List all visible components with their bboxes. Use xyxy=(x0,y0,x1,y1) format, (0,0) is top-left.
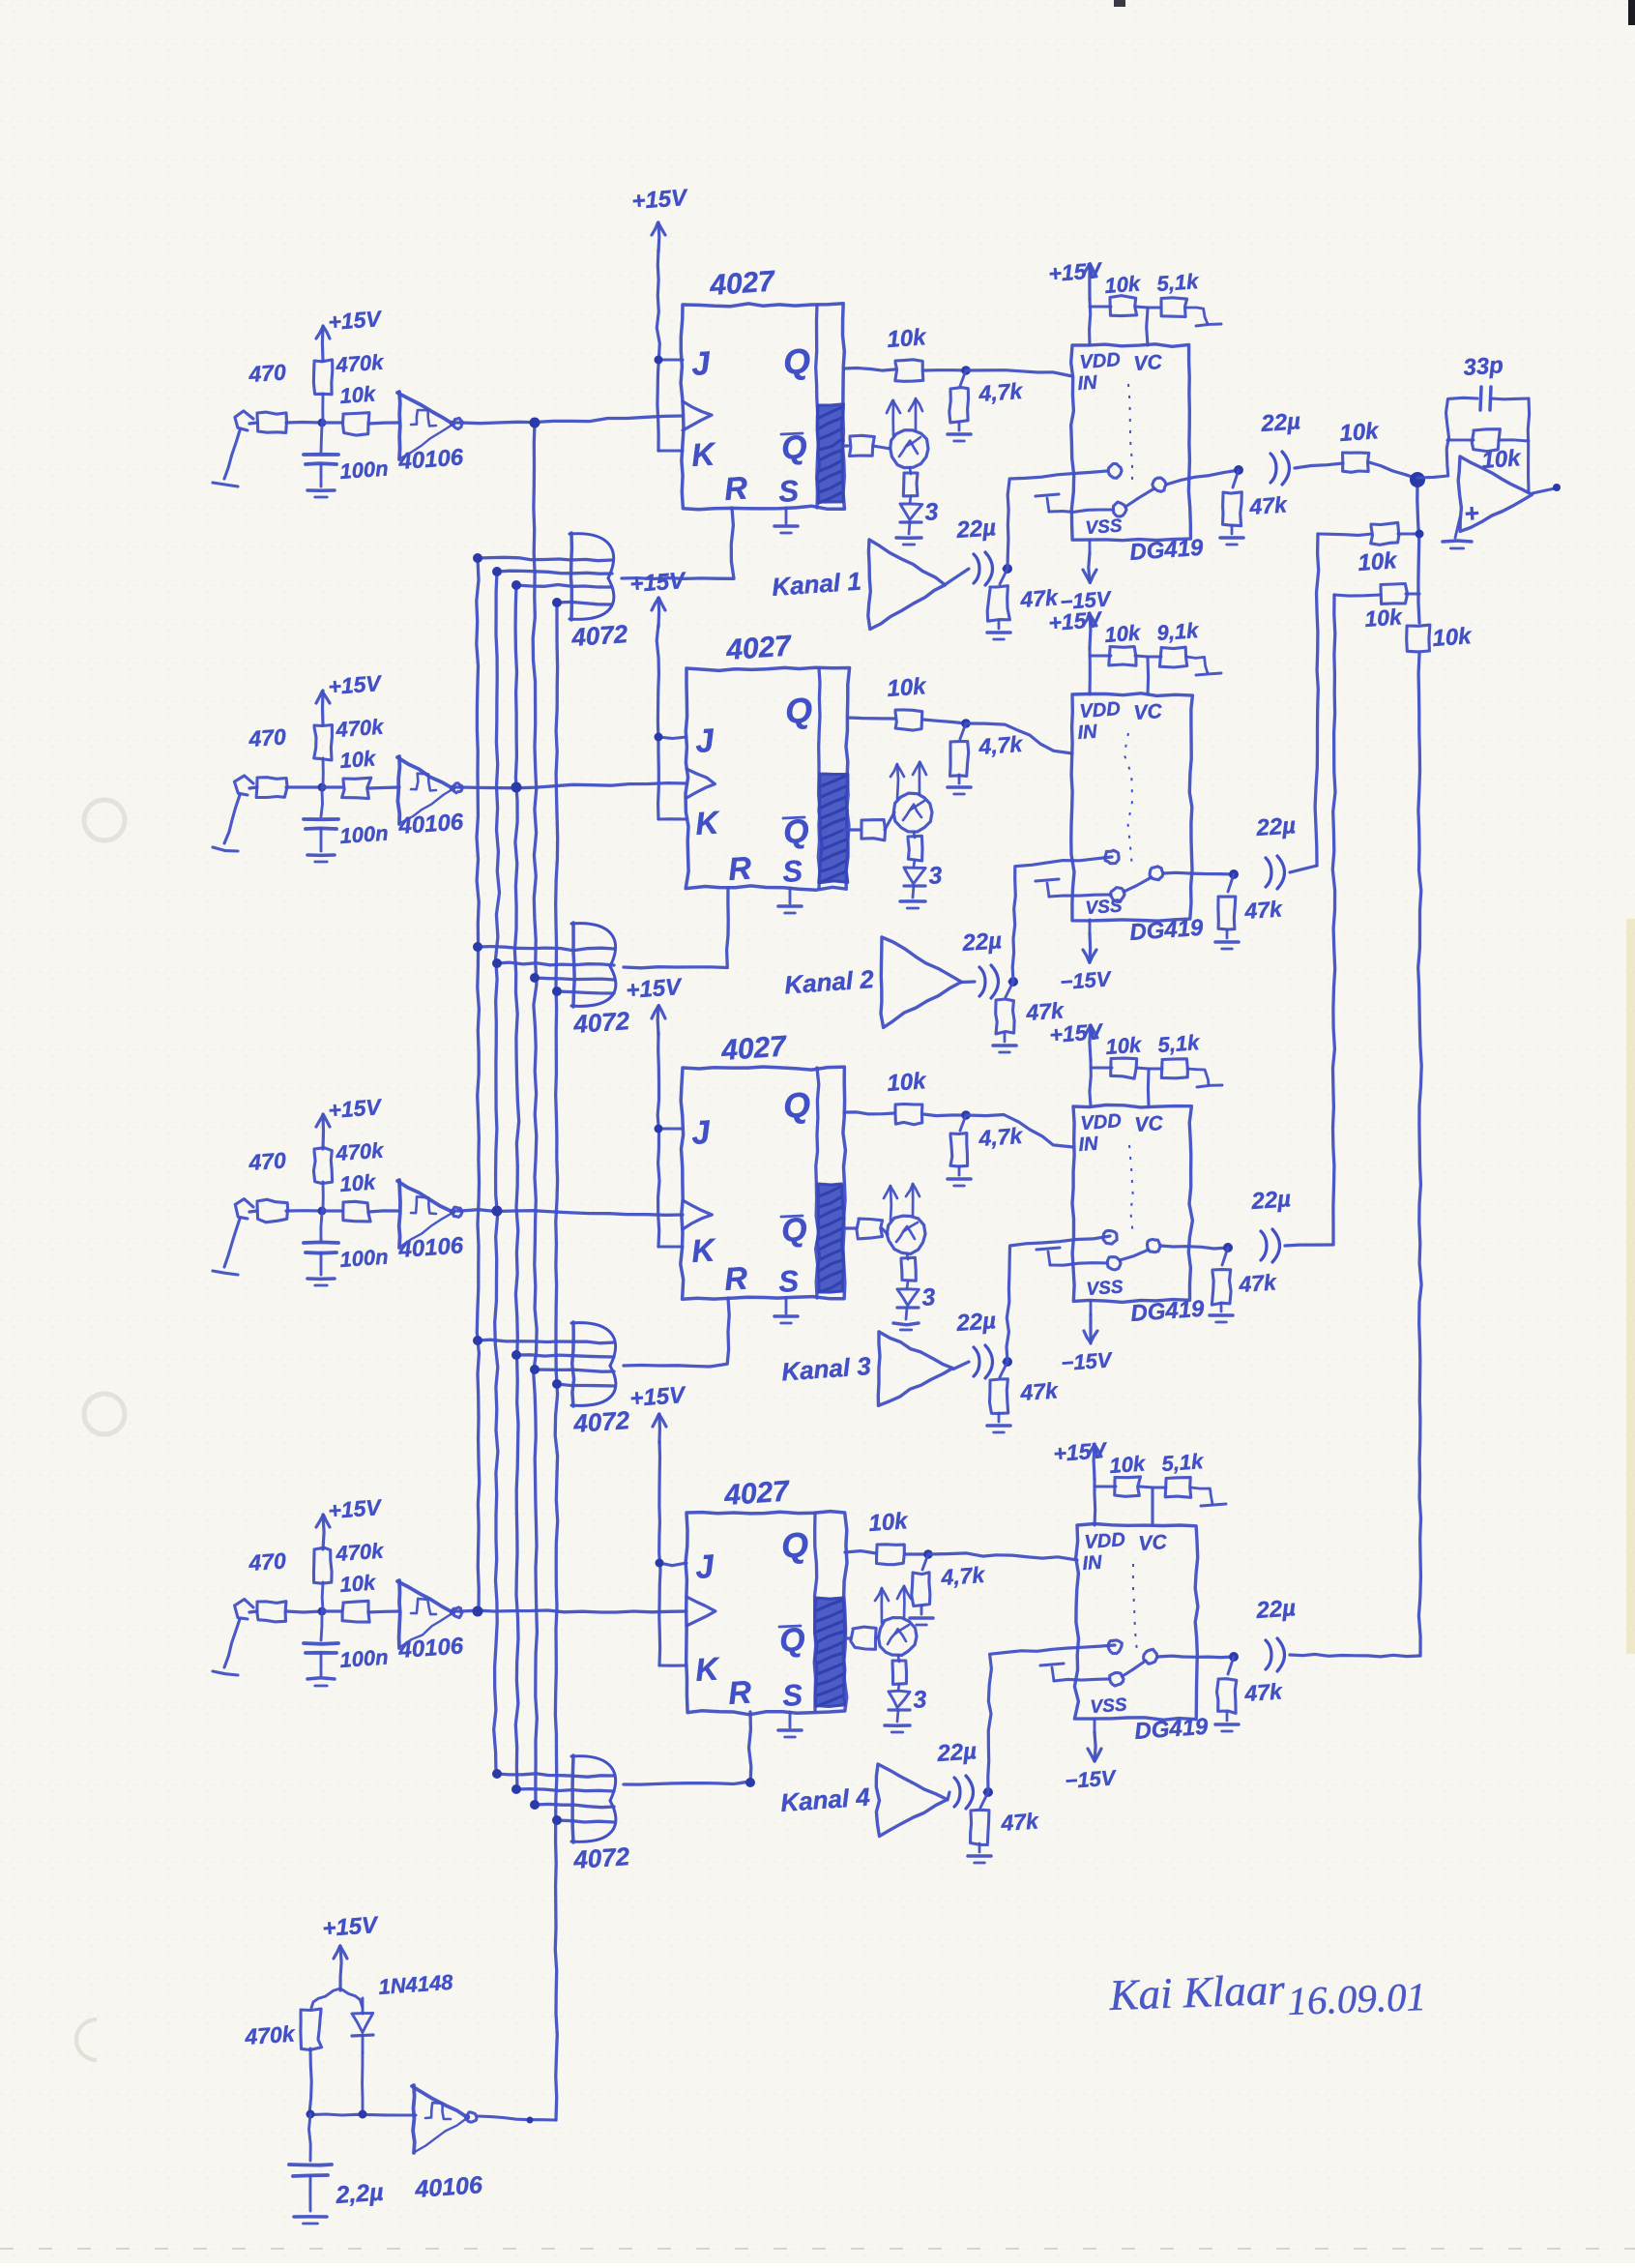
svg-text:470k: 470k xyxy=(335,1539,386,1567)
wire bus line net-lfo xyxy=(555,603,558,2120)
wire ch2 clock line xyxy=(460,783,686,788)
wire xyxy=(368,787,399,788)
wire S2 to ground xyxy=(1049,510,1113,512)
scribble bar 4027 #3 xyxy=(817,1184,844,1292)
schmitt inverter 40106 ch4 xyxy=(397,1580,465,1664)
wire to mix ch1 xyxy=(1295,463,1343,468)
wire xyxy=(1491,397,1529,400)
svg-text:22µ: 22µ xyxy=(1250,1186,1292,1215)
wire xyxy=(1004,1360,1007,1363)
wire xyxy=(286,1611,322,1612)
ground xyxy=(993,1033,1016,1052)
pin S 4027#1 xyxy=(777,474,800,509)
led ch1 xyxy=(900,496,939,526)
node xyxy=(1234,465,1243,475)
resistor 470 ch1 xyxy=(248,359,287,432)
svg-text:−15V: −15V xyxy=(1060,966,1114,994)
wire input to resistor xyxy=(249,1611,257,1612)
node lfo xyxy=(307,2110,367,2119)
wire xyxy=(1004,567,1007,570)
resistor ch4 emitter xyxy=(892,1656,907,1684)
node tap xyxy=(473,942,482,952)
wire xyxy=(923,1114,966,1116)
capacitor 22u out ch2 xyxy=(1255,812,1297,889)
svg-text:4072: 4072 xyxy=(571,1841,630,1874)
svg-text:Q: Q xyxy=(780,1524,810,1566)
wire xyxy=(322,421,342,424)
wire 4072#1 input 3 xyxy=(516,585,612,588)
pin label VC xyxy=(1138,1531,1169,1555)
clock chevron 4027#2 xyxy=(686,769,715,798)
wire xyxy=(953,1362,969,1370)
wire ch3 inverter output xyxy=(453,1209,460,1212)
analog switch DG419 #3 outline xyxy=(1072,1105,1192,1303)
switch lever xyxy=(1125,488,1154,507)
wire 4072#1 input 1 xyxy=(478,557,612,560)
label 4027 #1 xyxy=(708,265,776,302)
pin Qbar 4027#3 xyxy=(780,1211,808,1250)
resistor 470 ch3 xyxy=(248,1147,288,1222)
pin label VC xyxy=(1133,351,1164,375)
svg-text:DG419: DG419 xyxy=(1134,1714,1210,1745)
label DG419 #3 xyxy=(1130,1296,1206,1327)
input jack J4 xyxy=(213,1600,253,1676)
power +15V DG419 #3 xyxy=(1049,1018,1105,1060)
wire 4072#2 input 4 xyxy=(557,991,614,993)
buffer triangle Kanal 3 xyxy=(780,1332,952,1405)
resistor 5,1k top #3 xyxy=(1157,1030,1202,1078)
schmitt inverter 40106 ch3 xyxy=(397,1180,465,1263)
resistor ch1 emitter xyxy=(903,468,918,496)
switch throw S1 xyxy=(1150,867,1163,880)
wire VDD up xyxy=(1090,299,1091,345)
wire ch4 to IN xyxy=(928,1553,1077,1560)
wire xyxy=(322,785,342,788)
wire xyxy=(286,1209,322,1213)
wire mix vertical ch3 xyxy=(1332,595,1335,1245)
power -15V DG419 #2 xyxy=(1060,933,1114,994)
wire xyxy=(882,1228,888,1234)
svg-text:−15V: −15V xyxy=(1061,1347,1115,1375)
resistor 10k ch1 out xyxy=(1339,418,1381,472)
svg-text:4072: 4072 xyxy=(571,1006,630,1039)
svg-text:J: J xyxy=(690,345,713,383)
node tap xyxy=(530,1800,540,1810)
pin Qbar 4027#4 xyxy=(778,1621,806,1660)
svg-text:10k: 10k xyxy=(1358,547,1399,576)
schmitt inverter 40106 ch2 xyxy=(397,756,465,839)
wire xyxy=(876,1636,879,1638)
resistor 10k ch3 input xyxy=(339,1169,378,1222)
ground DG419 #1 xyxy=(1036,494,1059,512)
resistor 47k out ch2 xyxy=(1218,874,1284,929)
wire VSS xyxy=(1094,1719,1096,1732)
label DG419 #4 xyxy=(1134,1714,1210,1745)
svg-text:DG419: DG419 xyxy=(1129,535,1205,566)
wire +15V to J/K xyxy=(655,625,687,819)
svg-text:3: 3 xyxy=(912,1686,927,1714)
wire mix vertical ch2 xyxy=(1315,534,1319,866)
svg-text:VC: VC xyxy=(1133,700,1164,724)
svg-text:10k: 10k xyxy=(339,746,378,773)
arrows ch1 xyxy=(887,398,922,435)
svg-text:+15V: +15V xyxy=(1053,1437,1109,1466)
resistor 10k ch1 Q xyxy=(887,324,928,381)
wire S2 to ground xyxy=(1054,1679,1110,1681)
pin label VSS xyxy=(1085,515,1124,539)
node ch2 xyxy=(961,719,971,728)
pin Q 4027#1 xyxy=(782,340,812,382)
dashed select line xyxy=(1133,1564,1137,1652)
ground ch4 4.7k xyxy=(910,1605,933,1625)
pin J 4027#3 xyxy=(690,1114,713,1152)
power +15V DG419 #4 xyxy=(1053,1437,1109,1479)
ground xyxy=(987,620,1010,639)
resistor 10k mix ch4 inline xyxy=(1407,623,1474,652)
power -15V DG419 #3 xyxy=(1061,1314,1115,1375)
switch lever xyxy=(1124,877,1152,892)
transistor/opto ch1 xyxy=(890,430,928,468)
svg-text:10k: 10k xyxy=(339,1169,378,1196)
wire xyxy=(321,1582,325,1611)
resistor 47k ch2 kanal xyxy=(996,982,1066,1034)
wire 4072#2 input 2 xyxy=(497,962,614,965)
node ch1 bus junction xyxy=(530,418,540,428)
node ch4 xyxy=(923,1549,933,1559)
node xyxy=(1229,1652,1239,1662)
pin S 4027#2 xyxy=(781,854,803,889)
resistor 470k ch1 xyxy=(313,350,386,395)
pin label VDD xyxy=(1079,698,1122,722)
wire xyxy=(1135,307,1148,308)
svg-text:10k: 10k xyxy=(1432,623,1474,652)
resistor 10k top #4 xyxy=(1109,1451,1148,1496)
svg-text:40106: 40106 xyxy=(397,809,465,839)
node ch2 bus junction xyxy=(511,782,522,793)
label 4027 #3 xyxy=(719,1030,788,1067)
resistor 47k out ch3 xyxy=(1212,1248,1277,1305)
ground S pin 4027#4 xyxy=(778,1712,802,1737)
label 4027 #2 xyxy=(724,630,793,666)
node ch3 input junction xyxy=(318,1207,327,1216)
wire xyxy=(961,980,975,984)
svg-text:47k: 47k xyxy=(1019,584,1060,612)
wire +15V to J/K xyxy=(655,250,684,451)
switch throw S2 xyxy=(1107,1257,1121,1270)
power +15V arrow ch1 input xyxy=(316,306,383,361)
svg-text:+15V: +15V xyxy=(328,306,384,335)
clock chevron 4027#3 xyxy=(683,1200,712,1229)
power +15V DG419 #1 xyxy=(1048,257,1104,299)
pin K 4027#4 xyxy=(694,1650,722,1688)
node ch3 bus junction xyxy=(492,1206,503,1217)
op-amp output stage xyxy=(1458,457,1532,531)
scribble bar 4027 #2 xyxy=(819,774,848,883)
resistor 5,1k top #1 xyxy=(1156,269,1201,317)
wire VC up xyxy=(1146,658,1150,694)
pin label VDD xyxy=(1084,1529,1126,1553)
svg-text:S: S xyxy=(781,1678,803,1713)
svg-text:22µ: 22µ xyxy=(1255,1595,1297,1624)
wire VSS xyxy=(1089,540,1092,553)
power +15V arrow 4027#1 xyxy=(631,185,689,251)
svg-text:10k: 10k xyxy=(1109,1451,1148,1478)
capacitor 22u ch2 kanal xyxy=(961,928,1003,998)
resistor 10k ch4 input xyxy=(339,1570,378,1622)
wire 4072#2 output to R xyxy=(624,888,728,968)
node tap xyxy=(511,580,521,590)
svg-text:470k: 470k xyxy=(335,350,386,378)
wire ch2 up to switch xyxy=(1012,857,1112,982)
node summing xyxy=(1410,472,1425,487)
wire VSS xyxy=(1089,920,1092,933)
node tap xyxy=(552,598,562,607)
svg-text:S: S xyxy=(781,854,803,889)
switch throw S2 xyxy=(1110,1673,1124,1687)
svg-text:R: R xyxy=(727,849,753,887)
node tap xyxy=(511,1350,521,1360)
wire ch1 clock line xyxy=(460,416,683,424)
svg-text:+15V: +15V xyxy=(1048,257,1104,286)
svg-text:VC: VC xyxy=(1134,1112,1165,1136)
resistor 470k ch2 xyxy=(314,715,386,760)
pin label IN xyxy=(1082,1552,1103,1575)
resistor ch3 Qbar xyxy=(857,1219,883,1239)
wire bus line net-ch3 xyxy=(494,572,500,1774)
svg-text:4027: 4027 xyxy=(724,630,793,666)
svg-text:10k: 10k xyxy=(887,324,928,353)
pin R 4027#3 xyxy=(723,1259,749,1297)
scribble bar 4027 #4 xyxy=(815,1598,845,1707)
switch lever xyxy=(1123,1661,1146,1676)
resistor 470 ch4 xyxy=(248,1547,287,1622)
or-gate 4072 #3 xyxy=(571,1322,631,1438)
arrows ch3 xyxy=(884,1184,920,1221)
svg-text:4,7k: 4,7k xyxy=(940,1562,987,1590)
pin label VSS xyxy=(1086,1277,1124,1300)
node tap xyxy=(492,567,502,576)
wire xyxy=(885,812,894,830)
wire 4072#2 input 3 xyxy=(535,978,614,980)
svg-text:+15V: +15V xyxy=(322,1912,380,1942)
svg-text:470k: 470k xyxy=(244,2020,297,2049)
wire ch3 up to switch xyxy=(1007,1236,1110,1362)
resistor 10k ch4 Q xyxy=(868,1508,910,1565)
wire xyxy=(368,423,399,424)
wire 4072#4 input 4 xyxy=(557,1820,614,1822)
wire xyxy=(286,785,322,788)
wire Q out ch4 xyxy=(845,1551,876,1553)
resistor ch4 Qbar xyxy=(851,1627,876,1649)
resistor 10k ch2 input xyxy=(339,746,378,798)
svg-text:47k: 47k xyxy=(1248,491,1289,519)
wire Qbar ch4 xyxy=(844,1636,851,1639)
power +15V arrow ch4 input xyxy=(316,1494,383,1549)
resistor ch2 emitter xyxy=(908,832,922,861)
wire VDD up xyxy=(1090,1060,1091,1106)
svg-text:J: J xyxy=(694,1548,716,1586)
svg-text:47k: 47k xyxy=(1243,1678,1284,1706)
clock chevron 4027#1 xyxy=(683,401,712,430)
svg-text:+: + xyxy=(1463,498,1479,528)
wire VC up xyxy=(1147,1070,1151,1106)
svg-text:+15V: +15V xyxy=(1048,606,1104,635)
resistor 4.7k ch2 xyxy=(950,723,1025,776)
wire summing vertical lower xyxy=(1418,654,1422,1656)
svg-text:IN: IN xyxy=(1077,372,1098,395)
node tap xyxy=(530,1365,540,1374)
wire input to resistor xyxy=(249,787,257,788)
switch throw S1 xyxy=(1153,478,1166,491)
flip-flop 4027 #2 outline xyxy=(686,667,850,890)
power +15V arrow ch3 input xyxy=(316,1094,383,1149)
ground ch2 led xyxy=(900,886,925,908)
resistor 470k ch4 xyxy=(314,1539,386,1584)
pin label VSS xyxy=(1090,1694,1128,1718)
pin Q 4027#4 xyxy=(780,1524,810,1566)
pin J 4027#1 xyxy=(690,345,713,383)
svg-text:4072: 4072 xyxy=(571,1405,630,1438)
svg-text:10k: 10k xyxy=(339,1570,378,1597)
wire lfo out xyxy=(478,2116,556,2120)
svg-text:VSS: VSS xyxy=(1086,1277,1124,1300)
wire xyxy=(1135,656,1148,657)
node tap xyxy=(473,1336,482,1345)
node tap xyxy=(511,1784,521,1794)
buffer triangle Kanal 4 xyxy=(779,1764,947,1837)
svg-text:VDD: VDD xyxy=(1079,698,1122,722)
input jack J1 xyxy=(213,411,253,486)
flip-flop 4027 #4 outline xyxy=(686,1512,847,1715)
svg-text:47k: 47k xyxy=(1243,896,1284,924)
svg-text:VC: VC xyxy=(1138,1531,1169,1555)
or-gate 4072 #2 xyxy=(571,923,631,1039)
svg-text:22µ: 22µ xyxy=(955,515,997,544)
wire xyxy=(984,1790,988,1793)
wire Qbar ch1 xyxy=(844,444,848,447)
diode 1N4148 lfo xyxy=(352,1970,454,2052)
buffer triangle Kanal 2 xyxy=(783,937,961,1027)
svg-text:S: S xyxy=(777,1264,800,1299)
wire term xyxy=(1187,1069,1222,1087)
switch pole D xyxy=(1108,1640,1122,1654)
power -15V DG419 #4 xyxy=(1065,1732,1119,1793)
wire input to resistor xyxy=(249,423,257,424)
node ch4 bus junction xyxy=(473,1606,483,1617)
ground xyxy=(1220,525,1243,545)
ground ch3 led xyxy=(893,1308,919,1330)
signature xyxy=(1108,1965,1427,2023)
wire xyxy=(1136,1068,1149,1069)
wire Qbar ch3 xyxy=(844,1226,857,1229)
svg-text:47k: 47k xyxy=(1000,1808,1040,1836)
svg-text:+15V: +15V xyxy=(629,1382,687,1412)
wire S2 to ground xyxy=(1050,1263,1107,1266)
node mix xyxy=(1416,530,1424,539)
switch lever xyxy=(1120,1250,1149,1260)
wire 4072#1 input 2 xyxy=(497,571,612,574)
ground xyxy=(1215,1712,1239,1731)
svg-text:40106: 40106 xyxy=(413,2171,483,2203)
wire term xyxy=(1186,308,1221,326)
svg-text:2,2µ: 2,2µ xyxy=(334,2179,384,2209)
svg-text:100n: 100n xyxy=(339,1245,390,1272)
wire xyxy=(1149,1068,1162,1071)
wire xyxy=(321,394,324,423)
flip-flop 4027 #1 outline xyxy=(681,304,844,510)
svg-text:40106: 40106 xyxy=(397,1633,465,1664)
ground opamp xyxy=(1443,517,1472,548)
svg-text:22µ: 22µ xyxy=(955,1308,997,1337)
svg-text:+15V: +15V xyxy=(328,670,384,699)
svg-text:10k: 10k xyxy=(1104,271,1143,298)
resistor 10k ch1 input xyxy=(339,381,378,435)
ground ch2 4.7k xyxy=(948,775,971,794)
pin label IN xyxy=(1078,1134,1099,1156)
svg-text:VDD: VDD xyxy=(1084,1529,1126,1553)
node ch2 kanal xyxy=(1008,977,1018,987)
wire xyxy=(1009,980,1013,983)
wire xyxy=(322,1182,325,1211)
svg-text:+15V: +15V xyxy=(1049,1018,1105,1047)
pin J 4027#4 xyxy=(694,1548,716,1586)
power +15V arrow ch2 input xyxy=(316,670,383,725)
svg-text:470: 470 xyxy=(248,723,287,751)
wire xyxy=(905,1552,928,1555)
resistor 470 ch2 xyxy=(248,723,288,797)
svg-text:5,1k: 5,1k xyxy=(1156,269,1201,296)
pin label VSS xyxy=(1085,896,1124,919)
node xyxy=(1223,1243,1233,1252)
wire S2 to ground xyxy=(1049,895,1111,897)
node ch1 kanal xyxy=(1003,564,1012,574)
svg-text:470k: 470k xyxy=(335,1138,386,1166)
node xyxy=(1229,869,1239,879)
buffer triangle Kanal 1 xyxy=(771,540,945,630)
resistor 10k ch2 Q xyxy=(887,673,928,730)
resistor 9,1k top #2 xyxy=(1156,618,1201,667)
resistor 10k top #2 xyxy=(1104,620,1143,665)
input jack J2 xyxy=(213,776,253,851)
capacitor 22u ch4 kanal xyxy=(936,1738,978,1809)
wire xyxy=(1090,306,1111,309)
resistor 4.7k ch4 xyxy=(912,1554,986,1606)
wire xyxy=(1499,440,1529,441)
input jack J3 xyxy=(213,1199,253,1275)
wire xyxy=(1148,307,1161,309)
svg-text:+15V: +15V xyxy=(328,1094,384,1123)
svg-text:Q: Q xyxy=(782,1084,812,1126)
wire ch4 clock line xyxy=(460,1610,686,1612)
node ch3 kanal xyxy=(1003,1357,1012,1367)
wire ch3 to IN xyxy=(966,1115,1073,1148)
svg-text:−15V: −15V xyxy=(1065,1765,1119,1793)
ground ch3 input cap xyxy=(307,1279,335,1285)
wire xyxy=(1153,1487,1166,1489)
resistor 5,1k top #4 xyxy=(1161,1449,1206,1497)
wire to mix ch2 xyxy=(1290,866,1317,872)
svg-text:3: 3 xyxy=(927,862,943,890)
switch throw S2 xyxy=(1113,502,1126,516)
wire feedback xyxy=(1417,398,1477,478)
wire 4072#1 input 4 xyxy=(557,602,612,604)
led ch4 xyxy=(889,1684,927,1714)
wire xyxy=(340,1988,363,2008)
svg-text:IN: IN xyxy=(1078,1134,1099,1156)
wire xyxy=(368,1211,399,1212)
svg-text:22µ: 22µ xyxy=(961,928,1003,957)
node ch2 input junction xyxy=(318,783,327,792)
